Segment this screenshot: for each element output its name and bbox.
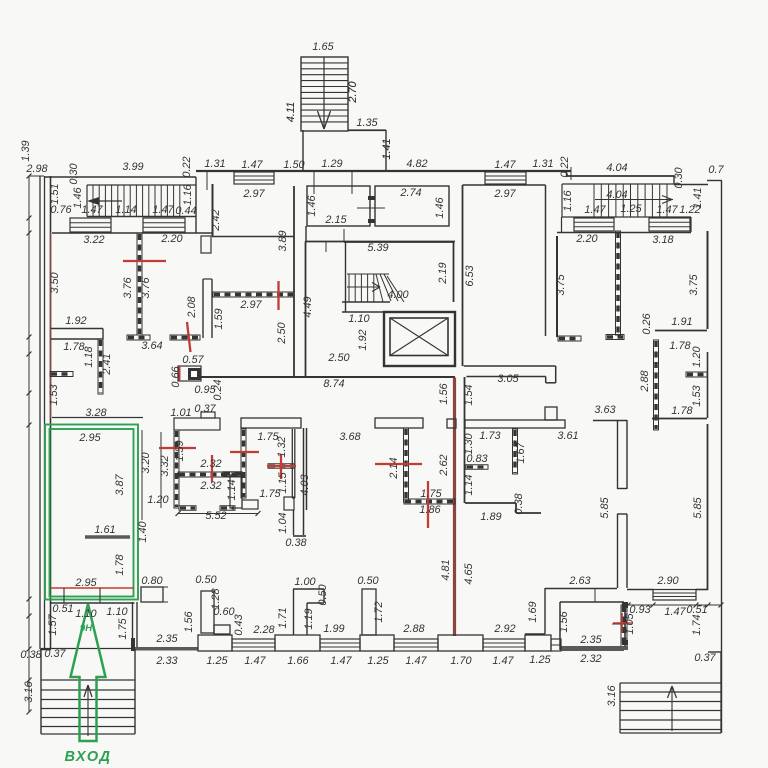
- svg-text:2.35: 2.35: [155, 633, 178, 645]
- wall 1.78 jog: [707, 398, 709, 418]
- svg-text:3.99: 3.99: [122, 161, 143, 173]
- svg-text:1.25: 1.25: [620, 203, 642, 215]
- room 3.63 L-wall: [593, 420, 627, 422]
- wall 2.41: [98, 339, 103, 394]
- top wall: [196, 170, 571, 172]
- svg-text:ВХОД: ВХОД: [65, 749, 112, 765]
- svg-text:1.00: 1.00: [294, 576, 315, 588]
- svg-text:0.43: 0.43: [233, 614, 245, 635]
- winder steps: [376, 274, 383, 302]
- svg-text:3.89: 3.89: [277, 230, 289, 251]
- svg-text:1.66: 1.66: [287, 655, 309, 667]
- wall: [241, 429, 246, 498]
- svg-text:5.85: 5.85: [599, 496, 611, 518]
- svg-text:1.56: 1.56: [438, 382, 450, 404]
- svg-text:0.44: 0.44: [175, 205, 196, 217]
- cap 1.14: [223, 472, 242, 477]
- wall 3.76: [137, 233, 142, 335]
- svg-text:1.92: 1.92: [357, 329, 369, 350]
- svg-text:3.61: 3.61: [557, 430, 578, 442]
- wall 1.15 right double: [291, 429, 293, 498]
- svg-text:1.14: 1.14: [463, 474, 475, 495]
- svg-text:3.18: 3.18: [652, 234, 673, 246]
- red line 2.32: [211, 455, 213, 482]
- svg-text:1.01: 1.01: [170, 407, 191, 419]
- svg-text:0.22: 0.22: [559, 156, 571, 177]
- svg-text:0.38: 0.38: [513, 493, 525, 514]
- wall between 2.32: [178, 472, 242, 477]
- svg-text:0.50: 0.50: [317, 584, 329, 605]
- svg-text:0.50: 0.50: [357, 575, 378, 587]
- window: [143, 218, 185, 232]
- stub 0.50/1.28/0.60 left: [201, 591, 214, 633]
- window: [320, 639, 360, 651]
- svg-text:4.81: 4.81: [440, 559, 452, 580]
- svg-text:2.88: 2.88: [639, 370, 651, 392]
- svg-text:0.30: 0.30: [68, 163, 80, 184]
- pier 1.01/0.37: [174, 418, 220, 430]
- svg-text:0.30: 0.30: [673, 167, 685, 188]
- green entrance arrow: [71, 604, 106, 741]
- svg-text:2.98: 2.98: [25, 163, 47, 175]
- svg-text:1.56: 1.56: [183, 610, 195, 632]
- window: [394, 639, 438, 651]
- window: [70, 218, 111, 232]
- step 0.37: [708, 651, 721, 653]
- svg-text:4.11: 4.11: [285, 102, 297, 122]
- svg-text:1.25: 1.25: [529, 654, 551, 666]
- svg-text:1.47: 1.47: [241, 159, 263, 171]
- vestibule below stair: [302, 130, 304, 170]
- svg-text:2.70: 2.70: [347, 81, 359, 103]
- wall 2.14: [404, 428, 409, 502]
- svg-text:1.78: 1.78: [63, 341, 84, 353]
- svg-text:3.16: 3.16: [23, 680, 35, 702]
- wall: [213, 292, 294, 297]
- svg-text:1.65: 1.65: [312, 41, 334, 53]
- svg-text:1.39: 1.39: [20, 140, 32, 161]
- svg-text:1.18: 1.18: [83, 346, 95, 367]
- bottom right block: [545, 588, 617, 590]
- svg-text:1.99: 1.99: [323, 623, 344, 635]
- room 2.97 left wall: [212, 184, 214, 236]
- svg-text:0.57: 0.57: [182, 354, 204, 366]
- cap: [220, 506, 235, 511]
- svg-text:2.20: 2.20: [160, 233, 182, 245]
- svg-text:2.95: 2.95: [78, 432, 101, 444]
- svg-text:3.05: 3.05: [497, 373, 519, 385]
- svg-text:5.85: 5.85: [692, 496, 704, 518]
- cap: [127, 335, 150, 340]
- svg-text:3.64: 3.64: [141, 340, 162, 352]
- svg-text:1.78: 1.78: [114, 554, 126, 575]
- svg-text:4.65: 4.65: [463, 562, 475, 584]
- dim line under 2.90: [628, 604, 721, 606]
- svg-text:2.95: 2.95: [74, 577, 97, 589]
- svg-text:2.90: 2.90: [656, 575, 678, 587]
- svg-text:1.30: 1.30: [463, 433, 475, 454]
- corridor caps: [241, 418, 301, 428]
- svg-text:2.50: 2.50: [276, 322, 288, 344]
- svg-text:2.35: 2.35: [579, 634, 602, 646]
- svg-text:3.28: 3.28: [85, 407, 106, 419]
- window: [574, 218, 614, 231]
- room 2.74: [375, 186, 449, 226]
- wall 2.08 pier: [202, 279, 204, 338]
- svg-text:1.67: 1.67: [515, 441, 527, 463]
- window: [551, 639, 561, 651]
- svg-text:1.10: 1.10: [75, 608, 96, 620]
- stub 0.83: [466, 465, 488, 470]
- svg-text:1.74: 1.74: [691, 614, 703, 635]
- svg-text:2.32: 2.32: [579, 653, 601, 665]
- corridor NE hook / 3.05: [464, 365, 556, 367]
- bottom stubs 1.00 / 0.50: [293, 589, 295, 635]
- svg-text:0.76: 0.76: [50, 204, 72, 216]
- svg-text:1.25: 1.25: [206, 655, 228, 667]
- svg-text:1.15: 1.15: [277, 471, 289, 493]
- svg-text:2.19: 2.19: [437, 262, 449, 284]
- door jambs: [368, 196, 375, 200]
- svg-text:2.33: 2.33: [155, 655, 177, 667]
- svg-text:1.16: 1.16: [182, 183, 194, 205]
- svg-text:1.25: 1.25: [367, 655, 389, 667]
- svg-text:1.41: 1.41: [381, 138, 393, 159]
- ticks on top wall: [313, 171, 315, 194]
- arrow right / dim 4.04: [595, 199, 673, 201]
- svg-text:2.97: 2.97: [239, 299, 262, 311]
- svg-text:1.46: 1.46: [306, 194, 318, 216]
- cap: [606, 335, 624, 340]
- svg-text:1.89: 1.89: [480, 511, 501, 523]
- porch steps: [41, 679, 135, 681]
- svg-text:5.39: 5.39: [367, 242, 388, 254]
- svg-text:2.50: 2.50: [327, 352, 349, 364]
- bottom wall 2.35 gray: [135, 647, 198, 651]
- green unit window bottom: [51, 602, 135, 604]
- svg-text:1.04: 1.04: [277, 512, 289, 533]
- red strike 1.75: [230, 451, 259, 453]
- svg-text:2.28: 2.28: [252, 624, 274, 636]
- svg-text:2.41: 2.41: [101, 353, 113, 375]
- svg-text:1.47: 1.47: [405, 655, 427, 667]
- right outer line: [721, 181, 723, 733]
- svg-text:1.10: 1.10: [348, 313, 369, 325]
- svg-text:1.35: 1.35: [356, 117, 378, 129]
- svg-text:1.61: 1.61: [94, 524, 115, 536]
- svg-text:0.37: 0.37: [44, 648, 66, 660]
- svg-text:4.82: 4.82: [406, 158, 427, 170]
- red cross 1.15: [267, 465, 296, 467]
- svg-text:3.87: 3.87: [114, 473, 126, 495]
- left outer wall double: [39, 176, 41, 649]
- svg-text:2.42: 2.42: [210, 209, 222, 231]
- red strike 1.59: [159, 447, 196, 449]
- svg-text:1.78: 1.78: [671, 405, 692, 417]
- svg-text:0.38: 0.38: [285, 537, 306, 549]
- svg-text:1.47: 1.47: [81, 204, 103, 216]
- svg-text:1.56: 1.56: [558, 610, 570, 632]
- green unit outline: [45, 425, 138, 600]
- small red cross 1.05: [613, 622, 632, 624]
- wall below green to bottom band: [132, 602, 134, 647]
- svg-text:2.14: 2.14: [388, 457, 400, 479]
- corridor top wall 8.74: [201, 376, 455, 378]
- svg-text:1.31: 1.31: [204, 158, 225, 170]
- room 5.85: [707, 424, 709, 590]
- svg-text:6.53: 6.53: [464, 265, 476, 286]
- svg-text:0.50: 0.50: [195, 574, 216, 586]
- svg-text:1.20: 1.20: [147, 494, 168, 506]
- red line 2.08: [187, 322, 191, 352]
- svg-text:2.15: 2.15: [324, 214, 347, 226]
- svg-text:0.51: 0.51: [52, 603, 73, 615]
- svg-text:0.22: 0.22: [181, 156, 193, 177]
- cap: [558, 336, 581, 341]
- wall 2.88: [654, 340, 659, 430]
- svg-text:2.88: 2.88: [402, 623, 424, 635]
- svg-text:1.47: 1.47: [584, 204, 606, 216]
- bottom band piers/windows: [198, 635, 232, 651]
- window: [483, 639, 525, 651]
- svg-text:4.03: 4.03: [299, 474, 311, 495]
- svg-text:1.29: 1.29: [321, 158, 342, 170]
- right wall 3.75: [707, 231, 709, 329]
- svg-text:1.28: 1.28: [210, 588, 222, 609]
- svg-text:0.26: 0.26: [641, 312, 653, 334]
- window 2.97: [234, 172, 274, 184]
- svg-text:1.46: 1.46: [72, 186, 84, 208]
- svg-text:3.68: 3.68: [339, 431, 360, 443]
- red strike 2.14: [375, 463, 422, 465]
- arrow up: [671, 687, 673, 731]
- left dimension line: [28, 176, 30, 712]
- svg-text:1.71: 1.71: [277, 607, 289, 628]
- red strike 3.76: [123, 260, 166, 262]
- top-right staircase: [562, 183, 674, 185]
- window 1.47: [485, 172, 526, 184]
- wall 4.03: [303, 428, 305, 535]
- svg-text:2.92: 2.92: [493, 623, 515, 635]
- building bottom over porch: [41, 648, 132, 650]
- svg-text:1.72: 1.72: [373, 601, 385, 622]
- dim lines: [141, 430, 143, 520]
- svg-text:1.10: 1.10: [106, 606, 127, 618]
- svg-text:0.37: 0.37: [694, 652, 716, 664]
- svg-text:1.20: 1.20: [691, 346, 703, 367]
- shelf 1.92/1.78: [51, 328, 103, 330]
- stub: [686, 372, 707, 377]
- svg-text:4.00: 4.00: [387, 289, 408, 301]
- wall 5.39: [305, 241, 455, 243]
- wall left of 2.20 room: [556, 236, 558, 337]
- bottom-right staircase: [619, 683, 621, 733]
- svg-text:1.19: 1.19: [303, 608, 315, 629]
- svg-text:1.70: 1.70: [450, 655, 471, 667]
- top-left staircase: [87, 184, 196, 186]
- svg-text:8.74: 8.74: [323, 378, 344, 390]
- wall 3.32: [174, 430, 179, 508]
- svg-text:3.75: 3.75: [555, 273, 567, 295]
- arrow left: [90, 200, 122, 202]
- svg-text:3.63: 3.63: [594, 404, 615, 416]
- stub 1.53: [50, 372, 73, 377]
- porch side walls: [40, 649, 42, 734]
- svg-text:2.97: 2.97: [493, 188, 516, 200]
- svg-text:2.32: 2.32: [199, 480, 221, 492]
- svg-text:2.97: 2.97: [242, 188, 265, 200]
- stair hall: [344, 241, 454, 243]
- wall 1.91: [655, 330, 707, 332]
- svg-text:3.75: 3.75: [688, 273, 700, 295]
- svg-text:1.47: 1.47: [492, 655, 514, 667]
- 1.61 gray bar: [85, 535, 130, 539]
- window: [649, 218, 690, 231]
- svg-text:1.40: 1.40: [137, 521, 149, 542]
- svg-text:4.49: 4.49: [302, 296, 314, 317]
- svg-text:1.78: 1.78: [669, 340, 690, 352]
- svg-text:1.54: 1.54: [463, 384, 475, 405]
- red line over green bottom: [51, 587, 134, 589]
- pier 1.14: [230, 475, 242, 508]
- svg-text:4.04: 4.04: [606, 162, 627, 174]
- elevator shaft: [384, 312, 455, 366]
- window: [232, 639, 275, 651]
- svg-text:3.20: 3.20: [140, 452, 152, 473]
- svg-text:3.22: 3.22: [83, 234, 104, 246]
- red line on 2.97 wall: [277, 281, 279, 310]
- svg-text:1.47: 1.47: [152, 204, 174, 216]
- svg-text:3.76: 3.76: [140, 276, 152, 298]
- corridor maroon wall: [453, 378, 456, 637]
- svg-text:1.05: 1.05: [624, 612, 636, 634]
- svg-text:1.91: 1.91: [671, 316, 692, 328]
- 0.80 box right of green: [141, 587, 163, 602]
- svg-text:0.38: 0.38: [20, 649, 41, 661]
- svg-text:9Н: 9Н: [80, 623, 93, 634]
- stub: [268, 464, 294, 469]
- svg-text:1.41: 1.41: [692, 187, 704, 208]
- top exterior staircase: [301, 57, 348, 131]
- svg-text:1.32: 1.32: [276, 436, 288, 457]
- svg-text:1.47: 1.47: [656, 204, 678, 216]
- svg-text:1.73: 1.73: [479, 430, 500, 442]
- svg-text:1.75: 1.75: [117, 617, 129, 639]
- svg-text:2.08: 2.08: [186, 296, 198, 318]
- svg-text:1.57: 1.57: [47, 613, 59, 635]
- cap: [179, 506, 196, 511]
- svg-text:3.32: 3.32: [159, 455, 171, 476]
- room 2.15: [307, 186, 370, 226]
- svg-text:1.59: 1.59: [213, 308, 225, 329]
- wall 1.86: [404, 499, 455, 504]
- svg-text:1.47: 1.47: [330, 655, 352, 667]
- wall 1.67: [513, 429, 518, 474]
- wall 3.89-4.49 vertical: [293, 186, 295, 377]
- svg-text:1.59: 1.59: [174, 440, 186, 461]
- svg-text:1.16: 1.16: [562, 189, 574, 211]
- hatched wall: [621, 605, 627, 647]
- svg-text:2.32: 2.32: [199, 458, 221, 470]
- stair down arrow: [323, 57, 325, 129]
- svg-text:1.53: 1.53: [691, 385, 703, 406]
- svg-text:1.14: 1.14: [115, 204, 136, 216]
- svg-text:5.52: 5.52: [205, 510, 226, 522]
- stair arrow: [347, 286, 379, 288]
- svg-text:2.20: 2.20: [575, 233, 597, 245]
- shaft 0.66x0.57: [178, 366, 201, 381]
- black arrow up: [87, 686, 89, 736]
- svg-text:0.7: 0.7: [708, 164, 724, 176]
- window 2.90: [627, 589, 653, 591]
- svg-text:0.80: 0.80: [141, 575, 162, 587]
- dim 1.35: [348, 130, 386, 132]
- svg-text:0.24: 0.24: [212, 379, 224, 400]
- svg-text:1.47: 1.47: [494, 159, 516, 171]
- svg-text:1.53: 1.53: [48, 384, 60, 405]
- svg-text:3.76: 3.76: [122, 276, 134, 298]
- svg-text:1.69: 1.69: [527, 601, 539, 622]
- svg-text:1.47: 1.47: [244, 655, 266, 667]
- svg-text:3.50: 3.50: [49, 272, 61, 293]
- svg-text:1.75: 1.75: [420, 488, 442, 500]
- svg-text:1.50: 1.50: [283, 159, 304, 171]
- svg-text:1.92: 1.92: [65, 315, 86, 327]
- svg-text:2.74: 2.74: [399, 187, 421, 199]
- svg-text:2.62: 2.62: [438, 454, 450, 476]
- svg-text:0.66: 0.66: [170, 365, 182, 387]
- red marked segment of left wall: [50, 233, 52, 418]
- svg-text:3.16: 3.16: [606, 684, 618, 706]
- svg-text:1.14: 1.14: [226, 479, 238, 500]
- svg-text:1.46: 1.46: [434, 196, 446, 218]
- svg-text:1.86: 1.86: [419, 504, 441, 516]
- svg-text:1.51: 1.51: [49, 183, 61, 204]
- window: [653, 590, 696, 601]
- wall between 2.20/3.18: [616, 231, 621, 335]
- svg-text:0.37: 0.37: [194, 403, 216, 415]
- svg-text:2.63: 2.63: [568, 575, 590, 587]
- room 2.97/6.53: [462, 185, 464, 366]
- red line 1.75/1.86: [427, 481, 429, 528]
- cap 2.08: [170, 335, 200, 340]
- svg-text:1.31: 1.31: [532, 158, 553, 170]
- svg-text:4.04: 4.04: [606, 189, 627, 201]
- corridor bottom: left thin: [52, 417, 143, 419]
- svg-text:1.47: 1.47: [664, 606, 686, 618]
